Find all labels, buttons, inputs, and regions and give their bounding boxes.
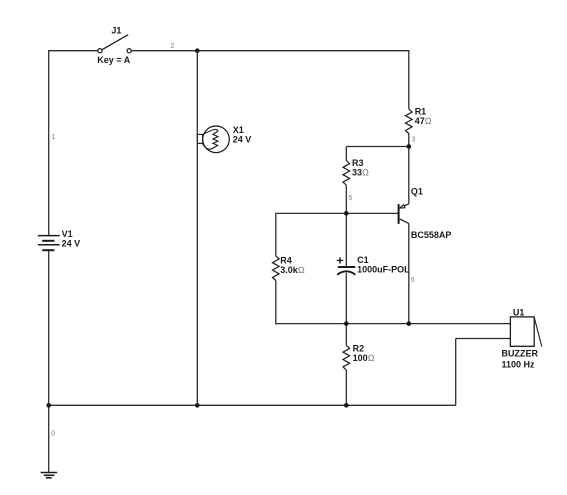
svg-text:24 V: 24 V: [62, 239, 81, 249]
svg-text:24 V: 24 V: [233, 134, 252, 144]
battery V1: [38, 229, 80, 250]
svg-text:1100 Hz: 1100 Hz: [502, 359, 536, 369]
svg-text:47Ω: 47Ω: [415, 116, 432, 126]
wire buzzer pin 2 vertical: [455, 339, 457, 406]
resistor R3: [343, 158, 369, 185]
wire top rail right segment: [131, 50, 409, 52]
svg-text:3.0kΩ: 3.0kΩ: [280, 265, 305, 275]
svg-text:33Ω: 33Ω: [352, 168, 369, 178]
node 0 junction dot left: [47, 403, 51, 407]
svg-text:R2: R2: [353, 343, 365, 353]
buzzer U1: [502, 307, 542, 369]
svg-text:BC558AP: BC558AP: [411, 230, 452, 240]
svg-text:R3: R3: [352, 158, 364, 168]
wire R1 bottom to node 3: [408, 134, 410, 147]
svg-text:BUZZER: BUZZER: [502, 348, 539, 358]
wire node 3 to emitter: [408, 147, 410, 204]
wire left vertical bottom (V1 bottom to ground): [48, 250, 50, 472]
wire R4 bottom: [275, 281, 277, 325]
node 5 junction dot: [344, 212, 348, 216]
svg-text:100Ω: 100Ω: [353, 353, 375, 363]
svg-text:0: 0: [51, 431, 55, 438]
node 0 junction dot R2: [344, 403, 348, 407]
svg-text:Q1: Q1: [411, 186, 423, 196]
capacitor C1: [337, 255, 410, 275]
wire R2 top: [345, 324, 347, 346]
resistor R2: [343, 343, 375, 370]
wire left vertical top (V1 top to switch rail): [48, 51, 50, 236]
transistor Q1: [399, 186, 452, 240]
svg-text:U1: U1: [513, 307, 525, 317]
wire R3 top: [345, 147, 347, 161]
node 6 junction dot left: [344, 322, 348, 326]
node 0 junction dot lamp: [195, 403, 199, 407]
wire R4 top: [275, 213, 277, 256]
wire collector vertical: [408, 223, 410, 323]
wire R3 bottom to node 5: [345, 185, 347, 213]
svg-text:2: 2: [171, 43, 175, 50]
wire C1 bottom: [345, 273, 347, 324]
node 6 junction dot right: [407, 322, 411, 326]
svg-text:V1: V1: [62, 229, 73, 239]
node 3 junction dot: [407, 145, 411, 149]
svg-text:5: 5: [348, 195, 352, 202]
wire node 5 horizontal to base: [276, 212, 398, 214]
wire R2 bottom: [345, 370, 347, 405]
resistor R1: [405, 107, 431, 134]
wire right vertical above R1: [408, 50, 410, 109]
ground: [41, 473, 58, 478]
svg-text:1: 1: [52, 134, 56, 141]
wire node 3 horizontal: [346, 146, 409, 148]
svg-text:J1: J1: [111, 25, 121, 35]
wire lamp branch vertical: [196, 51, 198, 406]
svg-text:R1: R1: [415, 107, 427, 117]
node 2 junction dot: [195, 49, 199, 53]
svg-text:Key = A: Key = A: [97, 55, 130, 65]
resistor R4: [272, 255, 304, 280]
svg-text:R4: R4: [280, 255, 292, 265]
wire bottom rail: [48, 404, 456, 406]
svg-text:6: 6: [411, 277, 415, 284]
wire bottom of RC loop to buzzer pin 1: [275, 323, 510, 325]
wire C1 top: [345, 213, 347, 266]
svg-text:X1: X1: [233, 125, 244, 135]
switch J1: [97, 25, 131, 65]
lamp X1: [197, 125, 251, 153]
wire top rail left segment: [48, 50, 98, 52]
svg-text:1000uF-POL: 1000uF-POL: [357, 264, 410, 274]
svg-text:3: 3: [412, 137, 416, 144]
wire buzzer pin 2 horizontal: [456, 338, 511, 340]
